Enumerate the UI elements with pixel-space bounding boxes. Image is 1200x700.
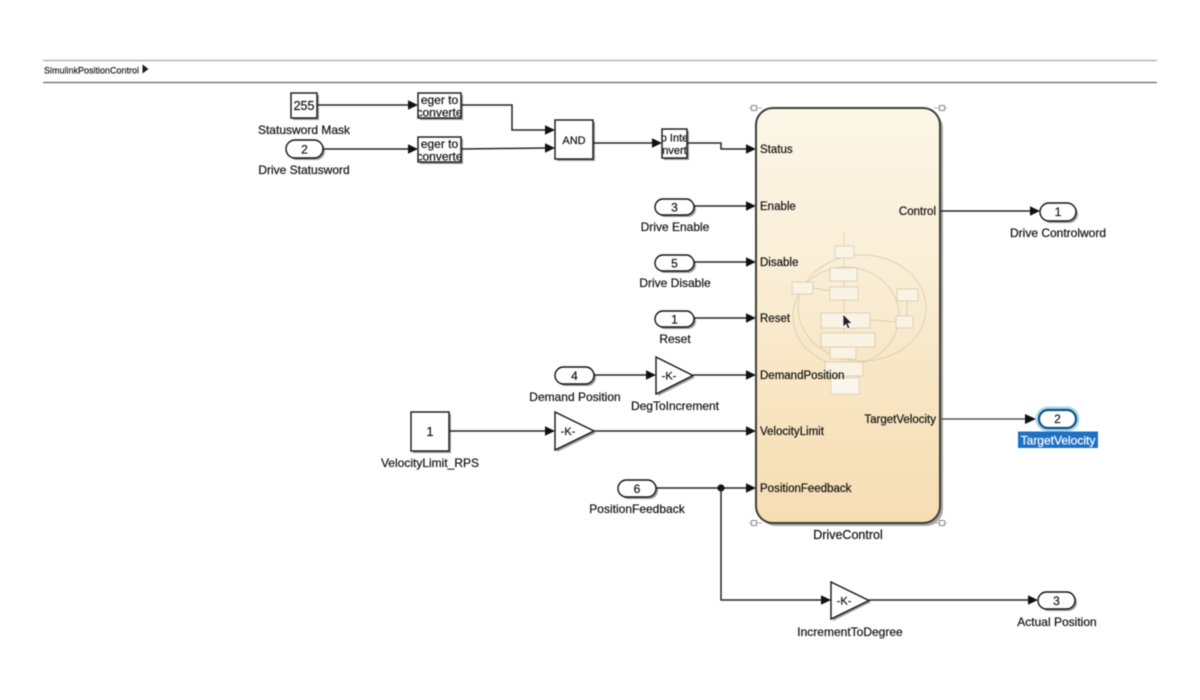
svg-text:IncrementToDegree: IncrementToDegree	[797, 625, 903, 639]
svg-text:Reset: Reset	[760, 313, 791, 325]
wire AND to Bit to Integer Converter	[593, 138, 662, 148]
svg-text:AND: AND	[562, 135, 585, 147]
svg-text:DemandPosition: DemandPosition	[760, 370, 844, 382]
wire 3 to Enable	[694, 201, 756, 211]
wire converter2 to AND input2	[461, 143, 555, 153]
svg-text:DegToIncrement: DegToIncrement	[631, 399, 720, 413]
svg-text:PositionFeedback: PositionFeedback	[589, 502, 685, 516]
breadcrumb text SimulinkPositionControl	[44, 65, 149, 76]
breadcrumb bar bottom rule	[43, 82, 1157, 84]
wire constant 1 to velocity gain	[449, 426, 555, 436]
selection handle bottom-right	[934, 521, 947, 526]
svg-text:2: 2	[1054, 412, 1061, 426]
svg-text:Control: Control	[899, 206, 936, 218]
svg-text:Reset: Reset	[659, 332, 691, 346]
svg-text:Drive Disable: Drive Disable	[639, 276, 711, 290]
svg-text:VelocityLimit: VelocityLimit	[760, 426, 825, 438]
svg-text:Drive Enable: Drive Enable	[641, 220, 710, 234]
label TargetVelocity selected blue	[1018, 432, 1098, 449]
wire branch junction down to IncrementToDegree	[721, 488, 831, 605]
wire 255 to converter1	[317, 100, 418, 110]
svg-text:PositionFeedback: PositionFeedback	[760, 483, 852, 495]
junction node on PositionFeedback wire	[717, 484, 724, 491]
constant block 1 (VelocityLimit_RPS)	[411, 412, 451, 453]
wire 5 to Disable	[694, 257, 756, 267]
gain DegToIncrement	[656, 357, 695, 396]
outport 2 TargetVelocity (selected)	[1039, 410, 1076, 428]
outport 3 Actual Position	[1038, 592, 1077, 611]
breadcrumb bar top rule	[43, 60, 1157, 62]
svg-text:Disable: Disable	[760, 257, 798, 269]
svg-text:4: 4	[571, 369, 578, 383]
svg-text:Drive Statusword: Drive Statusword	[258, 163, 349, 177]
svg-text:o Inte: o Inte	[661, 133, 689, 145]
svg-text:1: 1	[1055, 205, 1062, 219]
svg-text:TargetVelocity: TargetVelocity	[864, 414, 936, 426]
wire Control to outport 1	[940, 206, 1040, 216]
wire 6 to PositionFeedback port	[656, 483, 756, 493]
svg-text:TargetVelocity: TargetVelocity	[1021, 434, 1096, 448]
wire velocity gain to VelocityLimit port	[594, 426, 756, 436]
svg-text:5: 5	[671, 257, 678, 271]
svg-text:255: 255	[294, 99, 315, 113]
svg-text:SimulinkPositionControl: SimulinkPositionControl	[44, 66, 139, 76]
svg-text:Demand Position: Demand Position	[529, 390, 620, 404]
svg-text:converte: converte	[416, 106, 462, 120]
Integer to Bit Converter block 2	[416, 137, 463, 164]
svg-text:Drive Controlword: Drive Controlword	[1010, 226, 1106, 240]
outport 1 Drive Controlword	[1040, 203, 1078, 223]
wire 4 to DegToIncrement	[594, 370, 656, 380]
svg-text:VelocityLimit_RPS: VelocityLimit_RPS	[381, 456, 479, 470]
wire converter1 to AND input1	[461, 105, 555, 135]
svg-text:converte: converte	[416, 150, 462, 164]
mouse cursor	[843, 314, 852, 329]
svg-text:-K-: -K-	[837, 596, 852, 608]
DriveControl subsystem shadow	[759, 111, 943, 526]
svg-text:-K-: -K-	[561, 426, 576, 438]
svg-text:-K-: -K-	[662, 371, 677, 383]
svg-text:3: 3	[1053, 594, 1060, 608]
svg-text:Statusword Mask: Statusword Mask	[258, 123, 351, 137]
svg-text:nvert: nvert	[662, 145, 686, 157]
Integer to Bit Converter block 1	[416, 93, 463, 120]
selection handle top-left	[749, 106, 762, 111]
inport 4 Demand Position	[555, 367, 596, 386]
wire TargetVelocity to outport 2	[940, 414, 1036, 424]
svg-text:DriveControl: DriveControl	[813, 528, 882, 542]
svg-text:Enable: Enable	[760, 201, 796, 213]
wire 1 to Reset	[694, 313, 756, 323]
svg-text:2: 2	[301, 143, 308, 157]
svg-text:Status: Status	[760, 144, 793, 156]
wire 2 to converter2	[323, 144, 418, 154]
inport 5 Drive Disable	[655, 255, 696, 273]
constant block 255 (Statusword Mask)	[291, 93, 319, 120]
inport 2 Drive Statusword	[286, 140, 325, 160]
svg-text:Actual Position: Actual Position	[1017, 615, 1096, 629]
gain VelocityLimit (unnamed)	[555, 412, 596, 452]
svg-text:1: 1	[427, 425, 434, 439]
selection handle top-right	[934, 106, 947, 111]
inport 6 PositionFeedback	[618, 480, 658, 499]
wire DegToIncrement to DemandPosition	[693, 370, 756, 380]
inport 3 Drive Enable	[655, 199, 696, 217]
svg-text:3: 3	[671, 201, 678, 215]
watermark state diagram inside DriveControl	[792, 232, 926, 394]
AND logic block	[555, 120, 595, 161]
DriveControl subsystem block	[756, 108, 940, 523]
Bit to Integer Converter block	[661, 129, 689, 160]
inport 1 Reset	[655, 311, 696, 329]
svg-text:6: 6	[634, 482, 641, 496]
selection handle bottom-left	[749, 521, 762, 526]
svg-text:1: 1	[671, 313, 678, 327]
gain IncrementToDegree	[831, 582, 871, 621]
wire Bit to Integer Converter to Status port	[687, 143, 756, 154]
wire IncrementToDegree to outport 3	[869, 595, 1038, 605]
